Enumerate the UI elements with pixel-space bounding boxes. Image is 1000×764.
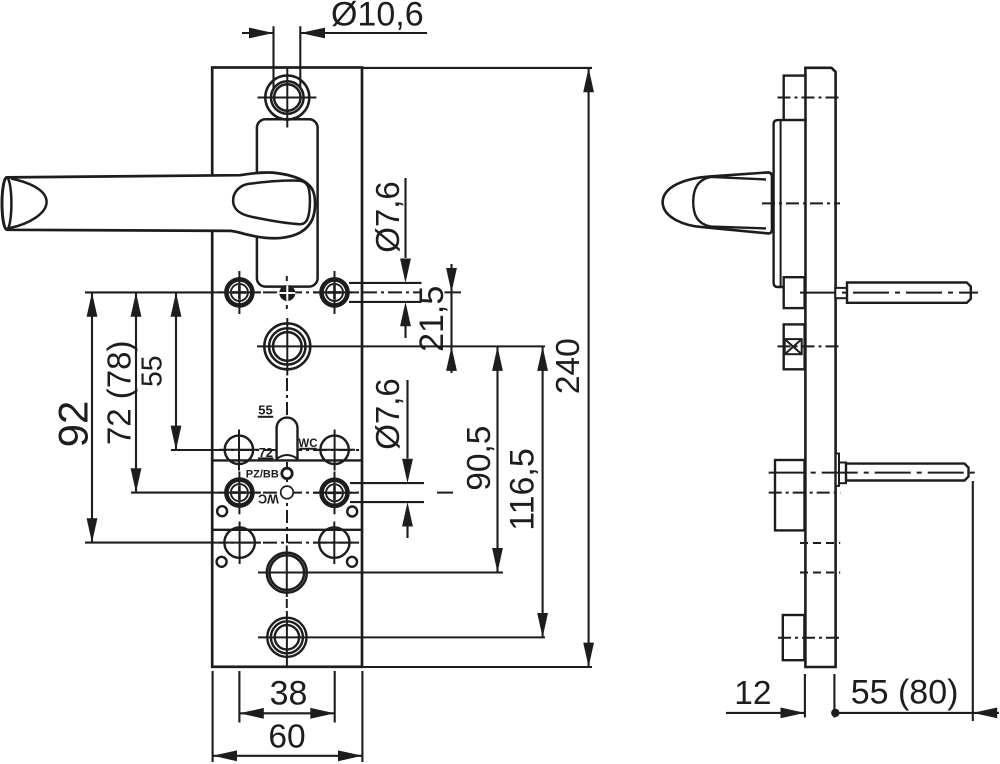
centerline lower screw rod xyxy=(769,472,978,474)
arrowheads 90,5 xyxy=(492,347,503,371)
svg-text:60: 60 xyxy=(268,719,305,756)
arrowheads Ø10,6 xyxy=(249,28,274,39)
DM marking ring (thin) xyxy=(281,486,294,499)
left lower hole xyxy=(219,522,262,565)
dim 38 line xyxy=(239,712,334,714)
left dims reference 55 (slot row) xyxy=(171,449,213,451)
dim 116,5 line xyxy=(542,347,544,638)
arrowheads 55 xyxy=(171,292,182,316)
svg-text:72 (78): 72 (78) xyxy=(100,341,137,446)
dim Ø7,6 lower leader xyxy=(406,380,408,459)
hidden line lower holes xyxy=(800,542,840,544)
black fixing screw (center) xyxy=(279,285,295,301)
dim Ø7,6 top leader xyxy=(404,178,406,258)
label 55 (bold underlined) xyxy=(258,402,274,417)
side handle grip face lines xyxy=(693,177,766,229)
arrowheads 92 xyxy=(87,292,98,316)
hidden line cylinder hole xyxy=(800,572,840,574)
svg-text:240: 240 xyxy=(550,338,587,394)
arrowheads Ø7,6 lower xyxy=(402,459,413,483)
short dash on 21,5 dim xyxy=(445,291,462,293)
top-right screw xyxy=(313,271,356,314)
dim 92 line xyxy=(91,292,93,542)
left 78-position hole xyxy=(219,430,259,471)
arrowheads 38 xyxy=(239,708,263,719)
lever handle (front view) xyxy=(2,172,315,238)
dim Ø7,6 top tangent lines xyxy=(349,283,422,302)
section divider line upper xyxy=(212,459,362,461)
side handle grip outer xyxy=(663,172,772,233)
arrowheads 72(78) xyxy=(131,292,142,316)
dim 38 extension lines xyxy=(239,671,334,723)
dim 90,5 line xyxy=(496,347,498,573)
top hole centerline horizontal xyxy=(258,97,317,99)
lower fixing block xyxy=(775,460,805,530)
section divider line lower xyxy=(212,529,362,531)
svg-text:Ø7,6: Ø7,6 xyxy=(369,378,406,450)
left dims reference 92 (lower holes row) xyxy=(85,542,213,544)
side plate (chamfered top corner) xyxy=(805,68,835,667)
arrowheads 21,5 xyxy=(446,268,457,292)
label WC (bold underlined) xyxy=(298,438,317,450)
dim Ø10,6 line xyxy=(242,32,427,34)
left dims reference top (screw row) xyxy=(85,291,212,293)
svg-text:92: 92 xyxy=(49,401,96,448)
dim 55 line xyxy=(175,292,177,450)
cover lip line xyxy=(780,121,782,287)
centerline bottom hole (side) xyxy=(778,637,841,639)
top fixing hole circles xyxy=(274,84,300,110)
bottom fixing block xyxy=(783,615,805,660)
svg-text:116,5: 116,5 xyxy=(503,448,541,531)
arrowheads 60 xyxy=(213,750,237,761)
lower screw head xyxy=(836,454,839,486)
svg-text:90,5: 90,5 xyxy=(461,426,498,491)
small corner circles xyxy=(217,506,227,516)
svg-text:Ø10,6: Ø10,6 xyxy=(331,0,424,34)
top hole centerline vertical xyxy=(286,68,288,128)
dim 55(80) rod-end extension line xyxy=(972,481,974,721)
vertical centerline dashes below rose xyxy=(286,276,288,281)
svg-text:Ø7,6: Ø7,6 xyxy=(369,181,406,253)
dim 240 line xyxy=(588,68,590,667)
dim 240 extension top xyxy=(362,67,592,69)
left dims reference 72 (PZ row) xyxy=(131,492,213,494)
bottom-left screw xyxy=(218,472,261,515)
WC slot break arc xyxy=(277,455,297,459)
dim 12 line xyxy=(726,712,805,714)
lower screw rod xyxy=(846,464,969,481)
dim Ø7,6 lower tangent lines xyxy=(350,483,424,502)
bottom-right screw xyxy=(313,472,356,515)
centerline row y=492.6 xyxy=(213,492,362,494)
svg-text:WC: WC xyxy=(258,491,279,505)
handle hub hole xyxy=(257,318,545,376)
front plate xyxy=(212,68,362,667)
dim 60 line xyxy=(213,755,363,757)
side cover plate xyxy=(774,120,806,287)
arrowhead 55(80) xyxy=(973,708,997,719)
upper spindle screw stub xyxy=(835,288,847,298)
screw centerline row y=292.4 xyxy=(213,291,421,293)
rose escutcheon (long plate of handle) xyxy=(257,119,318,286)
cylinder hole xyxy=(258,546,503,598)
centerline top hole (side) xyxy=(778,97,842,99)
arrowheads Ø7,6 top xyxy=(400,259,411,283)
dim 60 extension lines xyxy=(213,671,363,762)
side top block xyxy=(784,76,806,121)
arrowheads 116,5 xyxy=(537,347,548,371)
centerline PZ row (side) xyxy=(769,492,841,494)
svg-text:PZ/BB: PZ/BB xyxy=(246,469,279,481)
right 78-position hole xyxy=(315,430,356,471)
right lower hole xyxy=(313,522,356,565)
bottom fixing hole xyxy=(258,611,545,667)
svg-text:55 (80): 55 (80) xyxy=(851,674,959,712)
svg-text:55: 55 xyxy=(258,402,272,417)
centerline hub (side) xyxy=(778,345,842,347)
dim Ø10,6 extension lines xyxy=(274,26,301,88)
arrowheads 240 xyxy=(583,68,594,92)
centerline upper spindle xyxy=(800,292,978,294)
centerline handle axis (side) xyxy=(762,202,840,204)
spindle block with square xyxy=(784,324,805,369)
svg-text:12: 12 xyxy=(734,675,771,712)
top-left screw xyxy=(218,271,261,314)
dim junction dot xyxy=(831,709,839,717)
dim 21,5 line xyxy=(450,264,452,373)
handle neck face capsule xyxy=(233,181,310,225)
upper spindle screw rod xyxy=(847,283,971,303)
dim 240 extension bottom xyxy=(362,666,592,668)
dim 55(80) line xyxy=(835,712,999,714)
dim 12 / 55(80) extension lines xyxy=(805,674,835,718)
WC slot xyxy=(277,418,298,461)
spindle square section xyxy=(785,339,802,354)
centerline row y=450 xyxy=(213,449,362,451)
handle end face curve xyxy=(9,179,47,229)
svg-text:38: 38 xyxy=(270,675,308,713)
handle end cap ellipse xyxy=(2,177,12,229)
svg-text:21,5: 21,5 xyxy=(413,286,451,352)
PZ/BB marking ring (bold) xyxy=(282,468,292,478)
svg-text:55: 55 xyxy=(137,355,169,387)
spindle screw block xyxy=(784,277,805,308)
lower screw step xyxy=(839,463,846,484)
arrowhead 12 xyxy=(781,708,805,719)
label 72 (bold underlined) xyxy=(258,445,274,460)
centerline row y=542.6 xyxy=(213,542,362,544)
dim 72(78) line xyxy=(135,292,137,492)
